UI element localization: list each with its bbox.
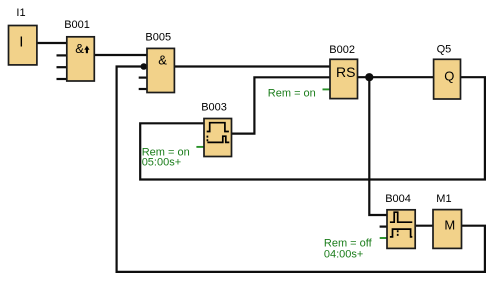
wire B002 output to Q5 input: [358, 76, 434, 78]
unconnected input pins B005: [139, 78, 147, 89]
wire M1 output feedback to B005 input 2: [117, 67, 485, 272]
svg-text:Q5: Q5: [437, 43, 452, 55]
svg-text:&: &: [158, 53, 167, 68]
svg-text:RS: RS: [336, 64, 355, 80]
RS latch block B002: [329, 44, 357, 99]
output block Q5: [434, 43, 461, 99]
svg-text:&: &: [75, 41, 84, 56]
svg-text:Rem = on: Rem = on: [268, 88, 316, 100]
unconnected input pins B001: [57, 55, 67, 79]
parameter pin B003 (green): [196, 146, 204, 148]
junction dot at B005 input 2: [141, 63, 148, 70]
wire B005 output to B002 S input: [174, 65, 330, 67]
svg-text:M1: M1: [436, 193, 451, 205]
off-delay timer block B004: [385, 193, 415, 249]
unconnected R input pin B004: [380, 226, 387, 228]
parameter text B003: Rem = on, 05:00s+: [142, 147, 190, 169]
wire Q5 output feedback to B003 Trg input: [140, 77, 485, 179]
AND block B005: [145, 31, 174, 92]
svg-text:I1: I1: [16, 7, 25, 19]
on-delay timer block B003: [201, 101, 231, 156]
svg-text:M: M: [444, 218, 455, 233]
wire branch B002 output down to B004 Trg input: [369, 77, 387, 215]
parameter pin B002 (green): [323, 88, 331, 90]
svg-text:05:00s+: 05:00s+: [142, 156, 181, 168]
svg-text:B002: B002: [329, 44, 355, 56]
wire B003 output to B002 R input: [232, 77, 331, 133]
parameter pin B004 (green): [380, 237, 387, 239]
flag block M1: [433, 193, 462, 249]
svg-text:B003: B003: [201, 101, 227, 113]
junction dot at B002 output node: [365, 73, 373, 81]
svg-text:Q: Q: [444, 69, 454, 84]
svg-text:B004: B004: [385, 193, 411, 205]
wire B001 output to B005 input 1: [94, 54, 147, 56]
parameter text B004: Rem = off, 04:00s+: [324, 238, 373, 261]
wire I1 to B001 input 1: [37, 42, 67, 44]
svg-text:B005: B005: [145, 31, 171, 43]
AND-edge block B001: [64, 19, 94, 81]
svg-text:I: I: [19, 34, 23, 51]
input block I1: [9, 7, 37, 65]
svg-text:04:00s+: 04:00s+: [324, 248, 363, 260]
svg-text:B001: B001: [64, 19, 90, 31]
wire B004 output to M1 input: [415, 225, 433, 227]
